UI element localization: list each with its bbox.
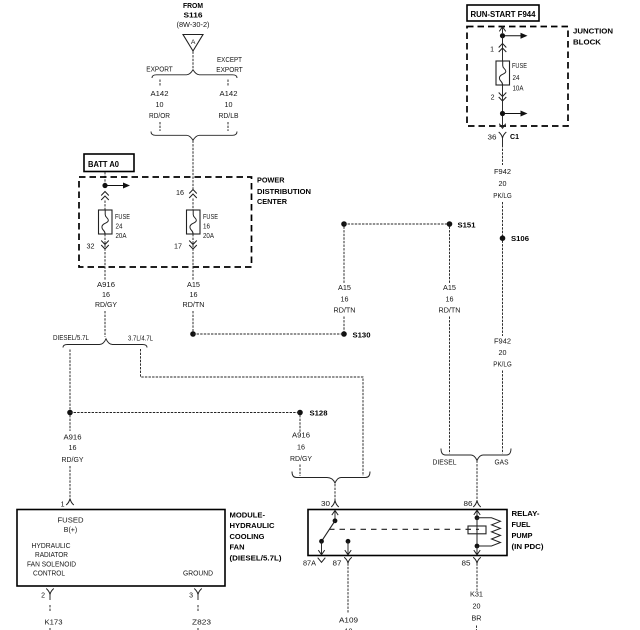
svg-text:16: 16 — [190, 292, 198, 299]
svg-text:JUNCTION: JUNCTION — [573, 27, 613, 36]
svg-text:FAN: FAN — [230, 543, 245, 552]
svg-text:BLOCK: BLOCK — [573, 38, 602, 47]
svg-text:S106: S106 — [511, 234, 529, 243]
svg-text:FUEL: FUEL — [512, 520, 531, 529]
svg-text:EXPORT: EXPORT — [216, 65, 243, 74]
svg-text:RD/TN: RD/TN — [334, 308, 356, 315]
svg-text:16: 16 — [446, 297, 454, 304]
svg-text:20A: 20A — [203, 233, 214, 240]
svg-text:CONTROL: CONTROL — [33, 569, 65, 578]
svg-text:FUSE: FUSE — [203, 214, 218, 221]
svg-text:S130: S130 — [353, 331, 371, 340]
svg-text:RD/LB: RD/LB — [219, 113, 239, 120]
svg-text:CENTER: CENTER — [257, 197, 288, 206]
svg-text:10: 10 — [156, 102, 164, 109]
svg-text:A15: A15 — [187, 282, 200, 289]
svg-text:MODULE-: MODULE- — [230, 511, 266, 520]
svg-text:GROUND: GROUND — [183, 569, 213, 578]
svg-text:RD/TN: RD/TN — [183, 302, 205, 309]
svg-text:20A: 20A — [116, 233, 127, 240]
svg-text:C1: C1 — [510, 132, 519, 141]
svg-text:16: 16 — [203, 224, 210, 231]
svg-text:PK/LG: PK/LG — [493, 193, 512, 200]
svg-text:HYDRAULIC: HYDRAULIC — [230, 521, 276, 530]
svg-text:20: 20 — [499, 350, 507, 357]
svg-text:A15: A15 — [338, 285, 351, 292]
svg-text:A109: A109 — [339, 618, 358, 625]
svg-text:16: 16 — [176, 190, 184, 197]
svg-text:A916: A916 — [97, 282, 115, 289]
svg-text:K31: K31 — [470, 592, 483, 599]
svg-text:FUSE: FUSE — [115, 214, 130, 221]
svg-text:86: 86 — [464, 501, 473, 508]
svg-text:RD/TN: RD/TN — [439, 308, 461, 315]
svg-text:F942: F942 — [494, 339, 511, 346]
svg-text:87A: 87A — [303, 561, 316, 568]
svg-text:GAS: GAS — [495, 460, 509, 467]
svg-text:S116: S116 — [184, 11, 203, 20]
svg-text:HYDRAULIC: HYDRAULIC — [32, 541, 71, 550]
svg-text:DIESEL/5.7L: DIESEL/5.7L — [53, 335, 89, 342]
svg-text:A: A — [191, 39, 196, 46]
svg-text:BR: BR — [472, 616, 482, 623]
svg-text:10: 10 — [225, 102, 233, 109]
svg-text:1: 1 — [490, 47, 494, 54]
svg-text:A15: A15 — [443, 285, 456, 292]
svg-text:16: 16 — [102, 292, 110, 299]
svg-text:20: 20 — [473, 604, 481, 611]
svg-text:16: 16 — [297, 445, 305, 452]
svg-text:A142: A142 — [220, 91, 238, 98]
svg-text:EXPORT: EXPORT — [146, 64, 173, 73]
svg-text:DISTRIBUTION: DISTRIBUTION — [257, 187, 311, 196]
svg-text:32: 32 — [87, 244, 95, 251]
svg-text:S151: S151 — [458, 221, 476, 230]
svg-text:K173: K173 — [45, 620, 63, 627]
svg-text:3: 3 — [189, 593, 193, 600]
svg-text:2: 2 — [41, 593, 45, 600]
svg-text:F942: F942 — [494, 169, 511, 176]
svg-text:30: 30 — [321, 501, 330, 508]
svg-text:A916: A916 — [64, 435, 82, 442]
svg-text:POWER: POWER — [257, 175, 285, 184]
svg-text:DIESEL: DIESEL — [433, 460, 457, 467]
svg-text:17: 17 — [174, 244, 182, 251]
svg-text:PK/LG: PK/LG — [493, 362, 512, 369]
svg-text:B(+): B(+) — [64, 525, 78, 534]
svg-text:RD/GY: RD/GY — [95, 302, 117, 309]
svg-text:(8W-30-2): (8W-30-2) — [177, 22, 210, 29]
svg-text:BATT A0: BATT A0 — [88, 160, 120, 169]
svg-text:FUSED: FUSED — [58, 516, 84, 525]
svg-text:16: 16 — [69, 445, 77, 452]
svg-text:RADIATOR: RADIATOR — [35, 550, 68, 559]
svg-text:2: 2 — [491, 95, 495, 102]
svg-text:FAN SOLENOID: FAN SOLENOID — [27, 560, 76, 569]
svg-text:24: 24 — [116, 224, 123, 231]
svg-text:16: 16 — [341, 297, 349, 304]
svg-text:RD/GY: RD/GY — [290, 456, 312, 463]
svg-text:FUSE: FUSE — [512, 63, 527, 70]
svg-text:36: 36 — [488, 134, 497, 141]
svg-text:A916: A916 — [292, 433, 310, 440]
svg-text:EXCEPT: EXCEPT — [217, 55, 242, 64]
svg-text:3.7L/4.7L: 3.7L/4.7L — [128, 336, 153, 343]
svg-text:FROM: FROM — [183, 1, 203, 10]
svg-text:87: 87 — [333, 561, 342, 568]
svg-text:COOLING: COOLING — [230, 532, 265, 541]
svg-text:A142: A142 — [151, 91, 169, 98]
svg-text:(DIESEL/5.7L): (DIESEL/5.7L) — [230, 553, 283, 562]
svg-text:RD/OR: RD/OR — [149, 113, 170, 120]
svg-text:24: 24 — [513, 75, 520, 82]
svg-text:(IN PDC): (IN PDC) — [512, 542, 545, 551]
svg-text:1: 1 — [61, 502, 65, 509]
svg-text:RD/GY: RD/GY — [62, 457, 84, 464]
svg-text:10A: 10A — [513, 86, 524, 93]
svg-text:85: 85 — [462, 561, 471, 568]
svg-text:PUMP: PUMP — [512, 531, 533, 540]
svg-text:Z823: Z823 — [192, 620, 211, 627]
svg-text:20: 20 — [499, 181, 507, 188]
svg-text:RELAY-: RELAY- — [512, 509, 541, 518]
svg-text:S128: S128 — [310, 409, 328, 418]
svg-text:RUN-START F944: RUN-START F944 — [471, 10, 537, 19]
